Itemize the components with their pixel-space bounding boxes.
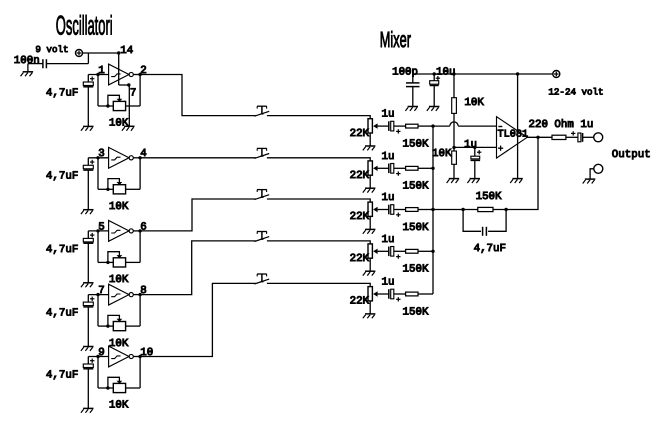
- svg-text:10K: 10K: [109, 201, 129, 213]
- svg-text:4,7uF: 4,7uF: [474, 243, 506, 255]
- svg-text:22K: 22K: [350, 253, 370, 265]
- svg-text:1u: 1u: [464, 139, 477, 151]
- svg-text:Output: Output: [612, 149, 651, 161]
- svg-text:2: 2: [140, 65, 146, 77]
- svg-text:150K: 150K: [403, 306, 429, 318]
- svg-text:10K: 10K: [109, 338, 129, 350]
- svg-text:4,7uF: 4,7uF: [46, 171, 78, 183]
- svg-text:1u: 1u: [382, 151, 395, 163]
- svg-text:1u: 1u: [382, 192, 395, 204]
- svg-text:9: 9: [98, 347, 104, 359]
- svg-text:150K: 150K: [403, 222, 429, 234]
- svg-text:10: 10: [140, 347, 153, 359]
- svg-text:4: 4: [140, 148, 146, 160]
- svg-text:10K: 10K: [432, 148, 452, 160]
- svg-text:1u: 1u: [382, 234, 395, 246]
- svg-text:100p: 100p: [392, 66, 418, 78]
- svg-text:150K: 150K: [403, 264, 429, 276]
- svg-text:Oscillatori: Oscillatori: [56, 11, 113, 41]
- svg-text:8: 8: [140, 285, 146, 297]
- svg-text:22K: 22K: [350, 128, 370, 140]
- svg-text:TL081: TL081: [498, 129, 529, 140]
- svg-text:10K: 10K: [464, 97, 484, 109]
- svg-text:1u: 1u: [382, 277, 395, 289]
- svg-text:100n: 100n: [14, 55, 40, 67]
- svg-text:7: 7: [98, 285, 104, 297]
- svg-text:22K: 22K: [350, 170, 370, 182]
- svg-text:150K: 150K: [403, 181, 429, 193]
- svg-text:22K: 22K: [350, 211, 370, 223]
- svg-text:150K: 150K: [476, 191, 502, 203]
- svg-text:Mixer: Mixer: [380, 27, 411, 52]
- svg-text:150K: 150K: [403, 138, 429, 150]
- svg-text:4,7uF: 4,7uF: [46, 244, 78, 256]
- svg-text:22K: 22K: [350, 296, 370, 308]
- svg-text:10K: 10K: [109, 118, 129, 130]
- svg-text:5: 5: [98, 221, 104, 233]
- svg-text:10u: 10u: [436, 66, 455, 78]
- svg-text:3: 3: [98, 148, 104, 160]
- svg-text:4,7uF: 4,7uF: [46, 308, 78, 320]
- svg-text:9 volt: 9 volt: [35, 44, 68, 55]
- svg-text:10K: 10K: [109, 400, 129, 412]
- svg-text:4,7uF: 4,7uF: [46, 369, 78, 381]
- svg-text:1: 1: [98, 65, 104, 77]
- svg-text:7: 7: [130, 87, 136, 99]
- svg-text:12-24 volt: 12-24 volt: [548, 87, 603, 98]
- svg-text:4,7uF: 4,7uF: [46, 87, 78, 99]
- svg-text:220 Ohm 1u: 220 Ohm 1u: [529, 119, 594, 131]
- svg-text:10K: 10K: [109, 274, 129, 286]
- svg-text:14: 14: [120, 45, 133, 57]
- svg-text:6: 6: [140, 221, 146, 233]
- svg-text:1u: 1u: [382, 109, 395, 121]
